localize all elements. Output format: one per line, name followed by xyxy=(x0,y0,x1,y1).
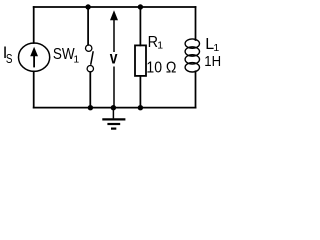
label SW1 xyxy=(53,46,80,65)
svg-text:1: 1 xyxy=(157,40,163,52)
wire R1 branch upper xyxy=(139,7,141,45)
label R1 xyxy=(148,34,164,52)
wire left rail upper xyxy=(33,7,35,43)
switch SW1 xyxy=(86,45,94,72)
wire right rail lower xyxy=(195,71,197,107)
wire switch branch upper xyxy=(87,7,89,45)
node junction top R1 xyxy=(138,4,143,9)
wire switch branch lower xyxy=(89,72,91,108)
node junction bottom ground xyxy=(111,105,116,110)
svg-text:1: 1 xyxy=(73,53,79,65)
svg-text:SW: SW xyxy=(53,46,76,63)
svg-text:1H: 1H xyxy=(204,53,221,70)
wire top rail xyxy=(34,6,196,8)
resistor R1 xyxy=(135,45,146,76)
node junction bottom R1 xyxy=(138,105,143,110)
svg-text:10 Ω: 10 Ω xyxy=(146,59,176,76)
current source Is xyxy=(18,43,49,71)
node junction top switch xyxy=(85,4,90,9)
svg-text:S: S xyxy=(6,51,13,66)
wire left rail lower xyxy=(33,71,35,107)
node junction bottom switch xyxy=(88,105,93,110)
wire right rail upper xyxy=(195,7,197,40)
voltage arrow v xyxy=(110,10,118,107)
inductor L1 xyxy=(185,39,199,72)
svg-text:v: v xyxy=(110,47,118,67)
wire R1 branch lower xyxy=(139,76,141,108)
ground xyxy=(102,108,125,129)
wire bottom rail xyxy=(34,107,196,109)
label Is xyxy=(3,44,13,66)
label L1 xyxy=(205,36,219,54)
